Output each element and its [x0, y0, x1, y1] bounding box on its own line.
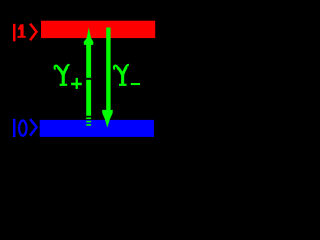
up arrow Y+ : dash 1 of dashed tail — [86, 117, 91, 119]
label |0> : bar of ket — [13, 119, 16, 137]
down arrow Y- : shaft — [106, 28, 110, 111]
label |1> : right angle bracket — [30, 24, 36, 41]
label |1> : bar of ket — [13, 24, 16, 42]
upper energy level bar |1> (red) — [41, 21, 155, 38]
label |1> : digit 1 — [18, 24, 26, 38]
label |0> : right angle bracket — [30, 119, 36, 136]
up arrow Y+ : lower shaft segment — [86, 80, 91, 116]
label Upsilon minus : Upsilon glyph — [114, 64, 129, 86]
label Upsilon minus : subscript minus sign — [131, 83, 140, 85]
up arrow Y+ : dash 3 of dashed tail — [86, 124, 91, 126]
down arrow Y- : arrowhead — [102, 110, 113, 128]
label Upsilon plus : subscript plus sign — [71, 78, 82, 89]
up arrow Y+ : upper shaft segment — [86, 45, 91, 78]
label |0> : digit 0 — [19, 121, 26, 136]
lower energy level bar |0> (blue) — [40, 120, 154, 137]
label Upsilon plus : Upsilon glyph — [55, 64, 70, 86]
up arrow Y+ : arrowhead — [84, 27, 94, 45]
up arrow Y+ : dash 2 of dashed tail — [86, 121, 91, 123]
